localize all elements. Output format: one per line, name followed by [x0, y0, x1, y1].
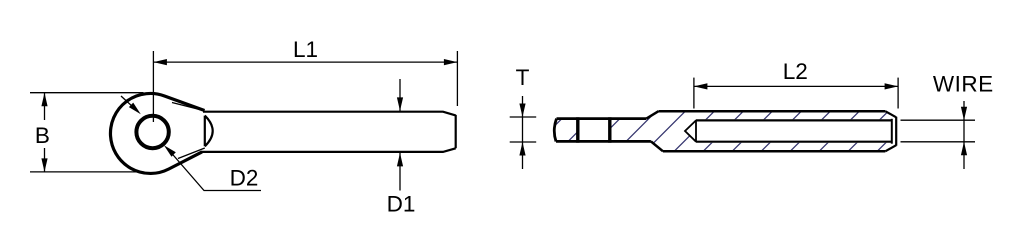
dimension L1 arrow left: [153, 59, 167, 65]
bore bottom line: [696, 141, 892, 143]
dimension L2 line: [694, 85, 898, 87]
label D2: [232, 170, 258, 186]
dimension B arrow up: [41, 93, 47, 107]
hatch region bottom sliver: [696, 143, 895, 152]
dimension T middle segment: [522, 117, 524, 142]
dimension T line bottom: [522, 142, 524, 169]
hole edge right: [608, 117, 611, 142]
dimension B extension top: [30, 92, 144, 94]
dimension L1 extension left: [152, 51, 154, 122]
dimension L2 extension left: [693, 78, 695, 109]
label WIRE: [933, 76, 992, 92]
dimension WIRE line: [963, 101, 965, 169]
eye hole: [136, 116, 168, 148]
hatch region top sliver: [696, 111, 895, 119]
dimension L1 extension right: [456, 51, 458, 106]
eye taper inner thin line bottom: [178, 148, 205, 159]
body end chamfer bottom: [885, 145, 896, 151]
dimension B line: [44, 93, 46, 120]
bore end inner line: [891, 119, 893, 144]
eye outer outline: [110, 93, 204, 173]
body end chamfer top: [885, 111, 896, 117]
dimension WIRE arrow down: [961, 107, 967, 121]
dimension D2 leader lower segment: [168, 149, 262, 191]
dimension T line top: [522, 96, 524, 117]
dimension D2 leader upper segment: [121, 96, 137, 111]
step taper bottom: [651, 141, 663, 151]
dimension D1 arrow up: [397, 153, 403, 167]
label B: [37, 128, 49, 144]
dimension L2 arrow right: [885, 83, 899, 89]
dimension L2 arrow left: [694, 83, 708, 89]
section bottom line: [556, 140, 651, 143]
section left curved edge: [554, 119, 556, 142]
dimension L1 line: [153, 61, 457, 63]
dimension L1 arrow right: [444, 59, 458, 65]
step taper top: [646, 111, 658, 118]
shank outline: [201, 112, 456, 152]
body top line: [659, 110, 886, 113]
section top line: [557, 117, 647, 120]
dimension B extension bottom: [30, 171, 144, 173]
label T: [516, 70, 529, 86]
neck transition D-bulge: [205, 116, 213, 147]
hatch region eye-section left compartment: [555, 119, 578, 142]
dimension T arrow up: [519, 142, 525, 156]
dimension D1 arrow down: [397, 97, 403, 111]
hole edge left: [576, 117, 579, 142]
dimension T tick top: [510, 116, 537, 118]
eye taper inner thin line top: [172, 103, 205, 111]
dimension D2 arrow lower: [164, 145, 176, 157]
dimension WIRE extension top: [901, 119, 976, 121]
dimension T arrow down: [519, 104, 525, 118]
label L2: [785, 63, 807, 79]
dimension L2 extension right: [897, 78, 899, 109]
dimension D1 line bottom: [399, 153, 401, 191]
dimension WIRE extension bottom: [901, 141, 976, 143]
dimension D2 arrow upper: [129, 103, 141, 115]
body bottom line: [663, 150, 885, 153]
hatch region neck solid: [610, 111, 696, 151]
dimension D1 line top: [399, 79, 401, 111]
dimension B arrow down: [41, 158, 47, 172]
dimension WIRE arrow up: [961, 142, 967, 156]
label D1: [389, 196, 415, 212]
dimension T tick bottom: [510, 141, 537, 143]
body end cap: [895, 117, 897, 146]
bore top line: [696, 119, 892, 121]
label L1: [295, 42, 317, 58]
bore cone: [685, 120, 696, 143]
